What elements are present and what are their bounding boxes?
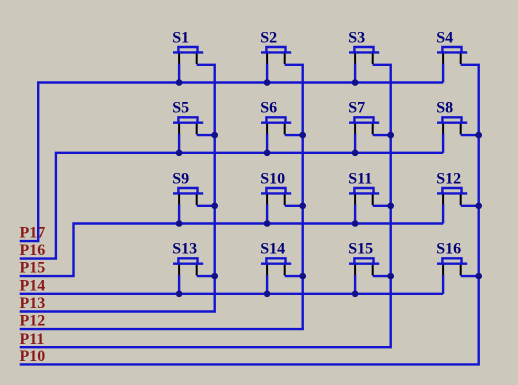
wire S14 left pin to row bus — [266, 275, 268, 294]
junction: S9 right pin on column 1 — [211, 203, 218, 210]
wire S4 left pin to row bus — [442, 64, 444, 83]
pushbutton S4 — [436, 29, 467, 64]
svg-text:S5: S5 — [172, 100, 189, 117]
junction: S1 left pin on bus 1 — [176, 79, 183, 86]
pushbutton S16 — [436, 241, 467, 276]
junction: S16 right pin on column 4 — [475, 273, 482, 280]
wire S13 right pin to column 1 — [197, 275, 215, 277]
junction: S13 right pin on column 1 — [211, 273, 218, 280]
pushbutton S6 — [260, 100, 291, 135]
junction: S5 left pin on bus 2 — [176, 150, 183, 157]
svg-text:S8: S8 — [436, 100, 453, 117]
wire S10 right pin to column 2 — [285, 205, 303, 207]
svg-text:S11: S11 — [348, 170, 372, 187]
svg-text:S13: S13 — [172, 241, 197, 258]
pushbutton S5 — [172, 100, 203, 135]
wire row bus 1 (net P17) — [20, 83, 443, 242]
svg-text:P13: P13 — [20, 295, 46, 312]
junction: S3 left pin on bus 1 — [352, 79, 359, 86]
pushbutton S12 — [436, 170, 467, 205]
pushbutton S10 — [260, 170, 291, 205]
wire S9 left pin to row bus — [178, 205, 180, 224]
pushbutton S15 — [348, 241, 379, 276]
junction: S7 right pin on column 3 — [387, 132, 394, 139]
wire column 3 (net P11) — [20, 65, 391, 347]
wire S6 left pin to row bus — [266, 134, 268, 153]
junction: S5 right pin on column 1 — [211, 132, 218, 139]
wire S6 right pin to column 2 — [285, 134, 303, 136]
svg-text:P15: P15 — [20, 260, 46, 277]
junction: S15 right pin on column 3 — [387, 273, 394, 280]
wire S12 right pin to column 4 — [461, 205, 479, 207]
wire S12 left pin to row bus — [442, 205, 444, 224]
svg-text:S4: S4 — [436, 29, 453, 46]
pushbutton S11 — [348, 170, 379, 205]
wire S5 left pin to row bus — [178, 134, 180, 153]
svg-text:S16: S16 — [436, 241, 461, 258]
pushbutton S2 — [260, 29, 291, 64]
wire S2 left pin to row bus — [266, 64, 268, 83]
wire S7 left pin to row bus — [354, 134, 356, 153]
pushbutton S3 — [348, 29, 379, 64]
wire S15 right pin to column 3 — [373, 275, 391, 277]
pushbutton S8 — [436, 100, 467, 135]
junction: S7 left pin on bus 2 — [352, 150, 359, 157]
junction: S15 left pin on bus 4 — [352, 291, 359, 298]
wire column 4 (net P10) — [20, 65, 479, 365]
svg-text:P17: P17 — [20, 225, 46, 242]
svg-text:P16: P16 — [20, 242, 46, 259]
wire S7 right pin to column 3 — [373, 134, 391, 136]
junction: S10 right pin on column 2 — [299, 203, 306, 210]
svg-text:P12: P12 — [20, 313, 46, 330]
svg-text:S7: S7 — [348, 100, 365, 117]
svg-text:S12: S12 — [436, 170, 461, 187]
wire S9 right pin to column 1 — [197, 205, 215, 207]
junction: S13 left pin on bus 4 — [176, 291, 183, 298]
wire S3 left pin to row bus — [354, 64, 356, 83]
svg-text:S15: S15 — [348, 241, 373, 258]
wire S16 left pin to row bus — [442, 275, 444, 294]
svg-text:S10: S10 — [260, 170, 285, 187]
svg-text:S6: S6 — [260, 100, 277, 117]
pushbutton S14 — [260, 241, 291, 276]
wire row bus 4 (net P14) — [20, 293, 443, 295]
svg-text:P11: P11 — [20, 331, 45, 348]
wire S8 left pin to row bus — [442, 134, 444, 153]
wire S11 right pin to column 3 — [373, 205, 391, 207]
wire S14 right pin to column 2 — [285, 275, 303, 277]
wire S15 left pin to row bus — [354, 275, 356, 294]
svg-text:S9: S9 — [172, 170, 189, 187]
junction: S11 left pin on bus 3 — [352, 220, 359, 227]
junction: S10 left pin on bus 3 — [264, 220, 271, 227]
pushbutton S13 — [172, 241, 203, 276]
wire S1 left pin to row bus — [178, 64, 180, 83]
svg-text:P10: P10 — [20, 348, 46, 365]
junction: S6 right pin on column 2 — [299, 132, 306, 139]
junction: S14 left pin on bus 4 — [264, 291, 271, 298]
wire S11 left pin to row bus — [354, 205, 356, 224]
junction: S9 left pin on bus 3 — [176, 220, 183, 227]
wire column 1 (net P13) — [20, 65, 215, 312]
pushbutton S1 — [172, 29, 203, 64]
svg-text:S1: S1 — [172, 29, 189, 46]
junction: S8 right pin on column 4 — [475, 132, 482, 139]
wire S8 right pin to column 4 — [461, 134, 479, 136]
junction: S6 left pin on bus 2 — [264, 150, 271, 157]
wire S16 right pin to column 4 — [461, 275, 479, 277]
pushbutton S7 — [348, 100, 379, 135]
wire row bus 3 (net P15) — [20, 224, 443, 277]
svg-text:S2: S2 — [260, 29, 277, 46]
junction: S2 left pin on bus 1 — [264, 79, 271, 86]
wire S10 left pin to row bus — [266, 205, 268, 224]
junction: S12 right pin on column 4 — [475, 203, 482, 210]
wire row bus 2 (net P16) — [20, 153, 443, 259]
wire S5 right pin to column 1 — [197, 134, 215, 136]
svg-text:S14: S14 — [260, 241, 285, 258]
svg-text:S3: S3 — [348, 29, 365, 46]
wire S13 left pin to row bus — [178, 275, 180, 294]
wire column 2 (net P12) — [20, 65, 303, 329]
junction: S11 right pin on column 3 — [387, 203, 394, 210]
svg-text:P14: P14 — [20, 277, 46, 294]
pushbutton S9 — [172, 170, 203, 205]
junction: S14 right pin on column 2 — [299, 273, 306, 280]
